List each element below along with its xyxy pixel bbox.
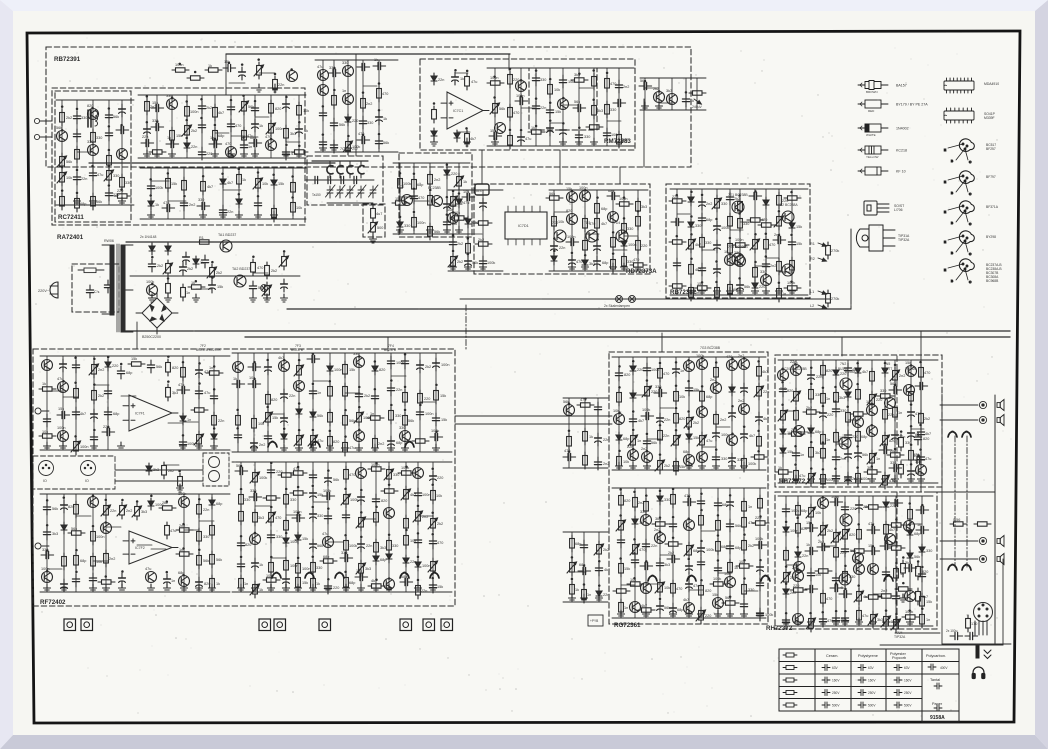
capacitor C106	[91, 409, 98, 422]
svg-text:2k2: 2k2	[664, 464, 670, 468]
node junction	[810, 383, 813, 386]
wire	[393, 162, 470, 164]
svg-text:47u: 47u	[163, 201, 169, 205]
capacitor C107	[90, 432, 97, 445]
svg-text:250V: 250V	[832, 691, 840, 695]
wire	[618, 68, 620, 146]
ground	[698, 610, 705, 618]
resistor R142	[68, 531, 85, 535]
potentiometer P43	[428, 515, 438, 532]
wire	[920, 360, 922, 483]
resistor R26	[297, 102, 302, 119]
capacitor C75	[682, 94, 689, 107]
variable capacitor C34 gang section	[358, 161, 364, 178]
resistor R113	[74, 385, 79, 402]
svg-text:500: 500	[377, 226, 383, 230]
svg-text:IC7D1: IC7D1	[518, 224, 529, 228]
resistor R35	[332, 92, 337, 109]
svg-text:3k3: 3k3	[290, 132, 296, 136]
potentiometer P50	[671, 432, 681, 449]
node junction	[835, 582, 838, 585]
resistor R18	[149, 150, 166, 154]
svg-text:56k: 56k	[317, 544, 323, 548]
capacitor C139	[430, 433, 443, 440]
ground	[780, 475, 787, 483]
node junction	[121, 570, 124, 573]
svg-text:160V: 160V	[832, 679, 840, 683]
capacitor C188	[643, 363, 650, 376]
ground	[900, 594, 907, 602]
svg-text:4k7: 4k7	[207, 185, 213, 189]
capacitor C190	[643, 436, 650, 449]
wire	[795, 360, 797, 483]
svg-text:3k3: 3k3	[172, 391, 178, 395]
ground	[591, 138, 598, 146]
svg-text:BC237B: BC237B	[291, 348, 303, 352]
block boundary RF72402	[33, 349, 455, 606]
node junction	[107, 356, 110, 359]
transistor Q71	[739, 359, 750, 370]
node junction	[107, 426, 110, 429]
capacitor C255	[817, 543, 830, 550]
node junction	[701, 357, 704, 360]
node junction	[108, 149, 111, 152]
resistor R161	[239, 508, 244, 525]
resistor R155	[210, 522, 215, 539]
node junction	[404, 409, 407, 412]
capacitor C176	[430, 471, 437, 484]
node junction	[729, 494, 732, 497]
wire	[446, 163, 448, 234]
capacitor C16	[105, 188, 112, 201]
capacitor C12	[73, 172, 80, 185]
resistor R125	[328, 383, 333, 400]
wire	[458, 163, 460, 234]
capacitor C118	[232, 380, 245, 387]
svg-text:470: 470	[576, 260, 582, 264]
resistor R176	[311, 575, 316, 592]
wire	[850, 229, 852, 309]
resistor R98	[732, 243, 749, 247]
capacitor C160	[310, 488, 317, 501]
svg-text:56k: 56k	[434, 230, 440, 234]
wire	[432, 462, 434, 592]
wire	[791, 189, 793, 295]
resistor R54	[508, 71, 513, 88]
wire	[345, 392, 360, 394]
resistor R153	[197, 528, 202, 545]
capacitor C89	[699, 197, 706, 210]
capacitor C66	[547, 123, 554, 136]
diode D43	[596, 588, 602, 600]
svg-text:56k: 56k	[156, 365, 162, 369]
potentiometer P8	[104, 167, 114, 184]
resistor R7	[196, 240, 213, 244]
ground	[893, 618, 900, 626]
wire	[40, 355, 230, 357]
potentiometer P33	[132, 503, 142, 520]
svg-text:1k: 1k	[463, 180, 467, 184]
svg-text:47u: 47u	[799, 474, 805, 478]
node junction	[452, 190, 455, 193]
svg-text:1n: 1n	[171, 579, 175, 583]
wire	[254, 95, 256, 158]
transistor Q70	[727, 435, 738, 446]
svg-text:47u: 47u	[525, 137, 531, 141]
resistor R283	[888, 523, 905, 527]
svg-text:Ceram.: Ceram.	[826, 654, 838, 658]
resistor R235	[736, 564, 753, 568]
capacitor C251	[805, 524, 818, 531]
wire	[151, 548, 166, 550]
svg-text:RD72373A: RD72373A	[626, 268, 657, 275]
wire	[549, 270, 648, 272]
svg-text:10k: 10k	[915, 460, 921, 464]
svg-text:B: B	[951, 191, 953, 195]
node junction	[185, 137, 188, 140]
svg-text:1n: 1n	[898, 411, 902, 415]
series capacitor C37	[336, 176, 349, 183]
svg-text:400V: 400V	[940, 666, 948, 670]
node junction	[690, 233, 693, 236]
lamp LA1	[616, 296, 623, 303]
svg-text:IC7C1: IC7C1	[453, 109, 463, 113]
svg-text:7N5: 7N5	[884, 362, 890, 366]
capacitor C101	[43, 414, 50, 427]
resistor R121	[212, 412, 217, 429]
transistor Q91	[868, 564, 879, 575]
dial lamp wire	[460, 298, 830, 300]
node junction	[493, 96, 496, 99]
node junction	[221, 173, 224, 176]
svg-text:330: 330	[203, 535, 209, 539]
node junction	[200, 117, 203, 120]
node junction	[785, 521, 788, 524]
svg-text:22n: 22n	[438, 78, 444, 82]
ground	[283, 150, 290, 158]
capacitor C36	[296, 124, 303, 137]
node junction	[285, 96, 288, 99]
trimmer capacitor C45	[369, 185, 379, 198]
transistor Q51	[179, 497, 190, 508]
wire	[596, 190, 598, 271]
capacitor C173	[400, 578, 413, 585]
wire	[549, 189, 648, 191]
wire	[140, 218, 306, 220]
transistor Q29	[586, 230, 598, 242]
resistor R296	[950, 522, 967, 526]
wire	[183, 421, 198, 423]
node junction	[241, 63, 244, 66]
wire	[661, 333, 663, 352]
resistor R180	[344, 574, 349, 591]
supply rail wire	[126, 241, 455, 243]
node junction	[700, 492, 703, 495]
capacitor C19	[144, 124, 151, 137]
node junction	[687, 558, 690, 561]
node junction	[405, 465, 408, 468]
chain line wire	[966, 436, 968, 567]
node junction	[687, 410, 690, 413]
svg-text:TIP34A: TIP34A	[905, 367, 917, 371]
svg-text:2k2: 2k2	[806, 406, 812, 410]
wire	[782, 360, 784, 483]
transistor Q8	[167, 99, 178, 110]
capacitor C92	[714, 221, 721, 234]
svg-text:330: 330	[540, 78, 546, 82]
ground	[372, 444, 379, 452]
ground	[789, 287, 796, 295]
capacitor C272	[904, 564, 917, 571]
resistor R246	[821, 362, 826, 379]
legend symbol capacitor r2c2	[894, 677, 902, 686]
resistor R257	[856, 470, 861, 487]
svg-text:63V: 63V	[904, 666, 911, 670]
ground	[236, 211, 243, 219]
node junction	[612, 231, 615, 234]
resistor R247	[821, 390, 826, 407]
transistor Q26	[580, 191, 591, 202]
ground	[320, 144, 327, 152]
svg-text:10k: 10k	[436, 494, 442, 498]
transistor Q73	[630, 602, 641, 613]
capacitor C271	[892, 591, 899, 604]
svg-text:1k: 1k	[866, 400, 870, 404]
ground	[715, 610, 722, 618]
node junction	[729, 237, 732, 240]
node junction	[902, 556, 905, 559]
ground	[90, 197, 97, 205]
svg-text:2k2: 2k2	[668, 551, 674, 555]
svg-text:330: 330	[367, 121, 373, 125]
capacitor C15	[105, 128, 112, 141]
node junction	[198, 549, 201, 552]
wire	[612, 617, 766, 619]
svg-text:330: 330	[610, 108, 616, 112]
node junction	[253, 361, 256, 364]
transistor Q74	[641, 515, 652, 526]
legend symbol resistor row 2	[783, 678, 797, 682]
svg-text:1k: 1k	[806, 543, 810, 547]
svg-text:330: 330	[316, 566, 322, 570]
node junction	[790, 234, 793, 237]
svg-text:220: 220	[827, 413, 833, 417]
capacitor C49	[359, 116, 366, 129]
wire	[848, 419, 860, 421]
capacitor C174	[414, 488, 421, 501]
ground	[196, 584, 203, 592]
capacitor C136	[416, 407, 423, 420]
capacitor C197	[729, 408, 736, 421]
svg-text:68p: 68p	[323, 555, 329, 559]
svg-text:2k2: 2k2	[187, 267, 193, 271]
resistor R28	[166, 175, 171, 192]
capacitor C125	[281, 389, 288, 402]
svg-text:330: 330	[640, 510, 646, 514]
node junction	[794, 445, 797, 448]
ground	[310, 444, 317, 452]
node junction	[583, 564, 586, 567]
node junction	[796, 569, 799, 572]
resistor R111	[39, 387, 56, 391]
capacitor C205	[640, 562, 653, 569]
ground	[833, 475, 840, 483]
capacitor C26	[198, 147, 205, 160]
wire	[702, 249, 715, 251]
ground	[148, 211, 155, 219]
node junction	[358, 386, 361, 389]
node junction	[285, 532, 288, 535]
svg-text:47u: 47u	[57, 377, 63, 381]
frame bevel right	[1035, 0, 1048, 749]
right bus wire	[994, 395, 996, 645]
ground	[433, 444, 440, 452]
resistor R59	[571, 78, 588, 82]
ground	[252, 584, 259, 592]
capacitor C97	[749, 192, 762, 199]
legend symbol capacitor r1c0	[822, 665, 830, 674]
potentiometer P13	[343, 138, 353, 155]
transistor Q98	[794, 426, 805, 437]
node junction	[290, 68, 293, 71]
node junction	[213, 388, 216, 391]
diode D35	[209, 497, 215, 509]
resistor R147	[98, 580, 115, 584]
svg-text:56k: 56k	[66, 160, 72, 164]
svg-text:330: 330	[81, 116, 87, 120]
svg-text:56k: 56k	[549, 192, 555, 196]
node junction	[270, 556, 273, 559]
node junction	[388, 534, 391, 537]
ground	[148, 584, 155, 592]
node junction	[253, 378, 256, 381]
node junction	[921, 607, 924, 610]
capacitor C200	[741, 429, 748, 442]
svg-text:470: 470	[924, 371, 930, 375]
resistor R177	[320, 559, 337, 563]
node junction	[781, 368, 784, 371]
svg-text:100n: 100n	[567, 235, 575, 239]
diode D40	[386, 551, 392, 563]
resistor R120	[206, 371, 223, 375]
capacitor C4	[180, 262, 187, 275]
resistor R55	[508, 104, 513, 121]
capacitor C41	[219, 205, 226, 218]
node junction	[92, 525, 95, 528]
wire	[106, 526, 121, 528]
wire	[405, 462, 407, 592]
svg-text:3k3: 3k3	[380, 546, 386, 550]
svg-text:15k: 15k	[555, 110, 561, 114]
wire	[672, 488, 674, 618]
wire	[563, 397, 608, 399]
connector arrow	[817, 303, 827, 309]
wire	[146, 95, 148, 158]
resistor R75	[595, 215, 600, 232]
ground	[356, 444, 363, 452]
capacitor C13	[89, 168, 96, 181]
transistor Q103	[904, 521, 915, 532]
potentiometer P47	[628, 432, 638, 449]
capacitor C113	[177, 386, 190, 393]
gang mid wire	[306, 179, 374, 181]
wire	[46, 494, 48, 592]
resistor R179	[344, 537, 349, 554]
node junction	[835, 610, 838, 613]
resistor R273	[821, 590, 826, 607]
svg-text:15k: 15k	[796, 225, 802, 229]
transistor Q62	[642, 452, 653, 463]
node junction	[399, 216, 402, 219]
node junction	[895, 518, 898, 521]
ground	[119, 584, 126, 592]
wire	[56, 99, 134, 101]
potentiometer P56	[655, 579, 665, 596]
ground	[331, 144, 338, 152]
wire	[468, 233, 482, 235]
wire	[619, 167, 621, 184]
wire	[910, 523, 922, 525]
node junction	[633, 538, 636, 541]
capacitor C171	[355, 573, 368, 580]
resistor R33	[291, 179, 296, 196]
resistor R107	[790, 257, 795, 274]
node junction	[578, 126, 581, 129]
node junction	[285, 144, 288, 147]
capacitor C228	[792, 448, 799, 461]
resistor R79	[622, 220, 627, 237]
capacitor C85	[594, 256, 601, 269]
resistor R227	[716, 517, 721, 534]
node junction	[327, 507, 330, 510]
capacitor C206	[656, 558, 663, 571]
wire	[675, 357, 677, 470]
resistor R109	[826, 242, 831, 259]
node junction	[659, 362, 662, 365]
wire	[121, 395, 136, 397]
wire	[232, 461, 452, 463]
transistor Q19	[558, 99, 569, 110]
ground	[741, 610, 748, 618]
ground	[808, 475, 815, 483]
wire	[778, 482, 938, 484]
capacitor C70	[575, 130, 582, 143]
svg-text:2n2: 2n2	[720, 418, 726, 422]
resistor R260	[877, 394, 894, 398]
transistor Q10	[266, 140, 277, 151]
svg-text:7E3 BC238B: 7E3 BC238B	[728, 245, 748, 249]
svg-text:2k2: 2k2	[827, 529, 833, 533]
wire	[779, 271, 792, 273]
feedback bus wire	[226, 53, 510, 55]
svg-text:1n: 1n	[695, 291, 699, 295]
svg-text:2k2: 2k2	[457, 260, 463, 264]
wire	[562, 68, 564, 146]
ground	[795, 618, 802, 626]
wire	[76, 515, 91, 517]
transistor Q99	[840, 514, 852, 526]
resistor R96	[738, 198, 743, 215]
svg-text:100n: 100n	[80, 445, 88, 449]
potentiometer P73	[854, 588, 864, 605]
svg-text:10k: 10k	[42, 430, 48, 434]
wire	[624, 235, 638, 237]
svg-text:2x 1N4148: 2x 1N4148	[140, 235, 157, 239]
resistor R245	[809, 444, 814, 461]
wire	[404, 353, 406, 452]
svg-text:B: B	[951, 221, 953, 225]
resistor R31	[237, 171, 242, 188]
